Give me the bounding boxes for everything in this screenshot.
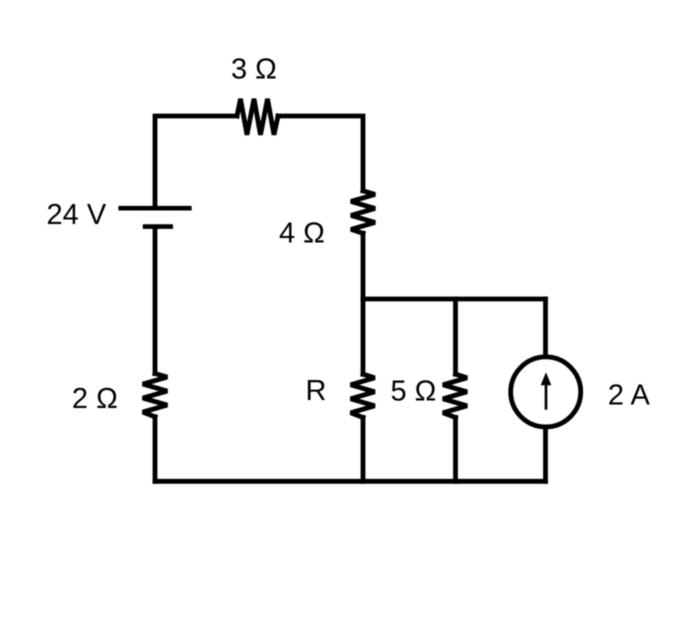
- wire: battery negative down to 2-ohm resistor: [153, 228, 158, 374]
- wire: 2-ohm down to bottom-left corner: [153, 417, 158, 482]
- current source circle: [511, 357, 581, 427]
- wire: 3-ohm to top-right corner, down to 4-ohm resistor: [278, 116, 363, 191]
- wire: 5-ohm down to bottom rail: [453, 417, 458, 481]
- wire: bottom rail: [155, 479, 546, 484]
- svg-text:2 Ω: 2 Ω: [72, 383, 118, 415]
- wire: current source bottom to bottom-right corner: [543, 428, 548, 481]
- resistor 2 ohm (vertical zigzag): [143, 374, 167, 417]
- svg-text:4 Ω: 4 Ω: [279, 218, 325, 250]
- wire: battery positive up to top-left corner, across to 3-ohm resistor: [155, 116, 237, 206]
- resistor 3 ohm (horizontal zigzag): [237, 99, 278, 135]
- svg-text:R: R: [306, 375, 327, 407]
- svg-text:24 V: 24 V: [47, 199, 107, 231]
- wire: current source branch top: [543, 299, 548, 356]
- current source arrow shaft: [545, 384, 548, 410]
- resistor 4 ohm (vertical zigzag): [351, 191, 375, 234]
- svg-text:2 A: 2 A: [608, 380, 651, 412]
- wire: 4-ohm down through middle junction to resistor R: [361, 233, 366, 374]
- svg-text:5 Ω: 5 Ω: [391, 375, 437, 407]
- current source arrow head: [541, 372, 552, 385]
- wire: resistor R down to bottom rail: [361, 417, 366, 481]
- resistor R (vertical zigzag): [351, 374, 375, 417]
- wire: 5-ohm branch from middle rail down to resistor: [453, 299, 458, 374]
- resistor 5 ohm (vertical zigzag): [443, 374, 467, 417]
- battery 24 V: long positive plate: [118, 206, 191, 211]
- battery 24 V: short negative plate: [143, 224, 173, 229]
- svg-text:3 Ω: 3 Ω: [231, 53, 277, 85]
- wire: middle horizontal rail from node to current source branch: [363, 297, 546, 302]
